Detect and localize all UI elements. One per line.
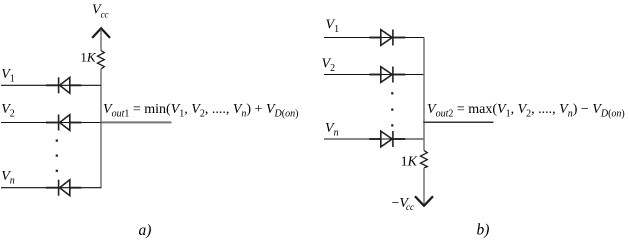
diode D2 (left, cathode to input) [46, 115, 81, 131]
wire V1 input (right) [324, 37, 424, 39]
resistor R1 1K (left) [98, 51, 105, 70]
wire V2 input (right) [324, 74, 424, 76]
svg-text:1K: 1K [80, 50, 97, 65]
diode D6 (right, cathode to bus) [369, 131, 405, 147]
wire bus left (output node), upper segment [100, 30, 102, 51]
ellipsis dots (left inputs) [56, 140, 58, 172]
svg-text:1K: 1K [401, 155, 418, 170]
svg-text:Vout2 = max(V1, V2, ...., Vn): Vout2 = max(V1, V2, ...., Vn) − VD(on) [427, 102, 625, 120]
wire V1 input (left) [1, 84, 101, 86]
svg-text:a): a) [139, 222, 152, 239]
wire Vn input (left) [1, 187, 101, 189]
power Vcc arrow (up) [92, 28, 110, 38]
diode D4 (right, cathode to bus) [369, 30, 405, 46]
wire bus right (output node), upper segment [423, 38, 425, 151]
power -Vcc arrow (down) [415, 196, 433, 206]
diode D5 (right, cathode to bus) [369, 67, 405, 83]
svg-text:b): b) [477, 222, 490, 239]
diode D1 (left, cathode to input) [46, 77, 81, 93]
diode Dn (left, cathode to input) [46, 180, 81, 196]
wire output Vout2 (right) [423, 121, 493, 123]
wire V2 input (left) [1, 122, 101, 124]
wire output Vout1 (left) [101, 121, 172, 123]
wire bus right (to negative supply) [423, 168, 425, 205]
wire bus left (output node), lower segment [100, 69, 102, 188]
resistor R2 1K (right) [421, 151, 428, 168]
ellipsis dots (right inputs) [391, 92, 393, 126]
wire Vn input (right) [324, 138, 424, 140]
